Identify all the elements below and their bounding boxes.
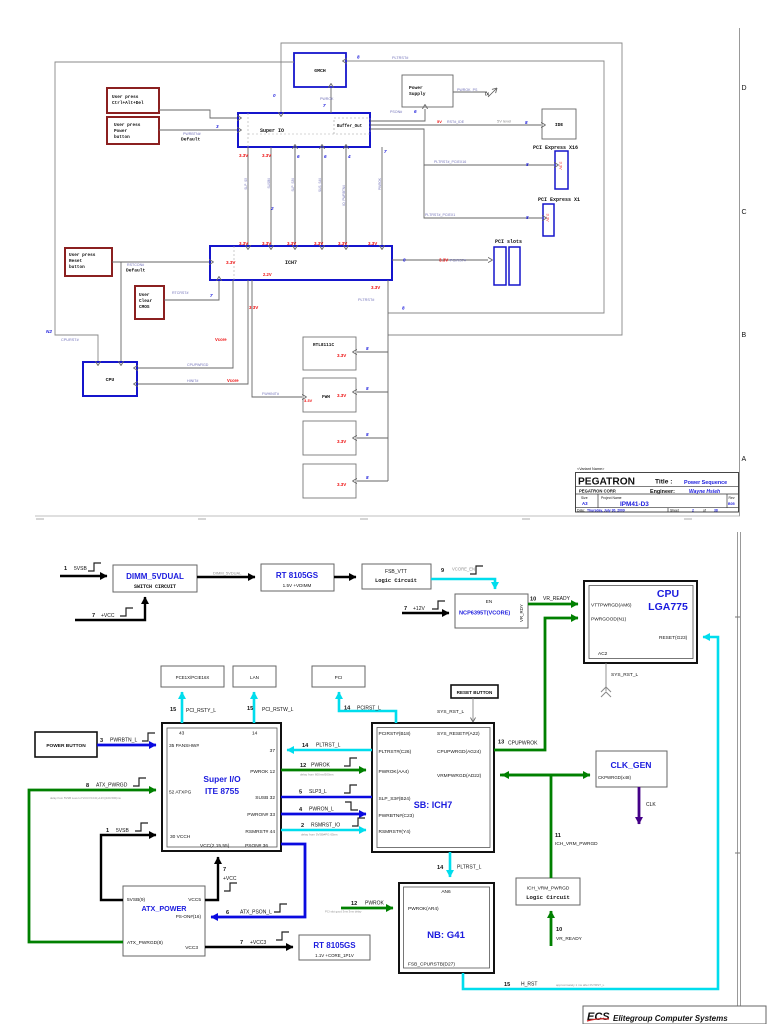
PCI slots (494, 239, 522, 285)
svg-text:5V level: 5V level (497, 119, 511, 124)
svg-text:PCE1X/PCIE16X: PCE1X/PCIE16X (176, 675, 210, 680)
GMCH (294, 53, 346, 87)
bus Super IO to ICH7 wire 1 (239, 147, 248, 246)
sheet1 bottom border (35, 516, 740, 519)
svg-text:3.3V: 3.3V (249, 305, 258, 310)
svg-text:0: 0 (273, 93, 276, 98)
User press Ctrl+Alt+Del (107, 88, 159, 113)
svg-text:VR_READY: VR_READY (556, 936, 583, 942)
svg-text:2: 2 (692, 509, 694, 513)
wire 13 CPUPWROK SB to CPU (494, 618, 578, 750)
svg-text:Thursday, July 30, 2009: Thursday, July 30, 2009 (587, 509, 625, 513)
svg-text:GMCH: GMCH (314, 68, 326, 74)
wire RSTCON# reset button to ICH7 (112, 262, 209, 274)
bus wire 5 (338, 147, 351, 246)
svg-text:PCI_RSTW_L: PCI_RSTW_L (262, 707, 294, 713)
svg-text:CPUPWRGD: CPUPWRGD (187, 363, 209, 367)
svg-text:PWRGOOD(N1): PWRGOOD(N1) (591, 617, 627, 623)
wire 14 PLTRST_L SB to Super IO (287, 743, 372, 751)
svg-text:7: 7 (92, 613, 95, 619)
svg-text:Buffer_Out: Buffer_Out (337, 124, 363, 129)
svg-text:delay from 600ms/500ms: delay from 600ms/500ms (300, 773, 334, 777)
svg-text:delay from 5VSB Level of VCC/V: delay from 5VSB Level of VCC/VCC3(+12V)(… (50, 796, 121, 800)
svg-text:3.3V: 3.3V (262, 241, 271, 246)
svg-text:ATX_PWRGD(8): ATX_PWRGD(8) (127, 940, 163, 946)
svg-text:PS-ON#(16): PS-ON#(16) (176, 914, 202, 919)
svg-text:RT 8105GS: RT 8105GS (313, 941, 356, 950)
svg-text:8: 8 (526, 215, 529, 220)
svg-text:PCI slot good 3ms 3ms delay: PCI slot good 3ms 3ms delay (325, 910, 362, 914)
svg-text:7: 7 (323, 103, 326, 108)
svg-text:PWROK: PWROK (365, 901, 385, 907)
svg-text:10: 10 (556, 927, 562, 933)
svg-text:6: 6 (324, 154, 327, 159)
svg-text:7: 7 (404, 606, 407, 612)
svg-text:VCC5: VCC5 (188, 897, 201, 903)
svg-text:AC2: AC2 (598, 651, 608, 657)
svg-text:6: 6 (226, 910, 229, 916)
svg-text:RT 8105GS: RT 8105GS (276, 571, 319, 580)
svg-text:CPURST#: CPURST# (61, 338, 80, 342)
PCE1X/PCIE16X box (161, 666, 224, 687)
wire CPUPWRGD ICH7 to CPU (138, 280, 233, 368)
svg-text:ICH_VRM_PWRGD: ICH_VRM_PWRGD (527, 886, 570, 892)
svg-text:Sheet: Sheet (670, 509, 679, 513)
svg-text:Vcore: Vcore (215, 337, 227, 342)
svg-text:approximately 1 ms after PLTRS: approximately 1 ms after PLTRST_L (556, 983, 605, 987)
ICH_VRM_PWRGD Logic Circuit (516, 878, 580, 905)
svg-text:DIMM_5VDUAL: DIMM_5VDUAL (213, 571, 242, 576)
wire PWROK Super IO to GMCH (320, 88, 334, 113)
svg-text:Vcore: Vcore (227, 378, 239, 383)
svg-text:6: 6 (414, 109, 417, 114)
wire 12 PWROK to NB (325, 901, 393, 914)
svg-text:PWRON_L: PWRON_L (309, 807, 334, 813)
svg-text:PWRBTN#: PWRBTN# (183, 132, 201, 136)
wire CPURST# GMCH to CPU (46, 62, 294, 361)
svg-text:1: 1 (106, 828, 109, 834)
svg-text:ATX_POWER: ATX_POWER (142, 904, 188, 913)
svg-text:User press: User press (114, 123, 141, 128)
wire RST#_IDE to IDE (370, 119, 541, 126)
svg-text:PEGATRON: PEGATRON (578, 477, 635, 488)
svg-text:6: 6 (297, 154, 300, 159)
svg-text:N2: N2 (46, 329, 52, 334)
svg-text:3.3V: 3.3V (337, 393, 346, 398)
svg-text:VCC3: VCC3 (185, 945, 198, 951)
svg-text:1: 1 (64, 566, 67, 572)
svg-text:button: button (114, 135, 130, 140)
wire 15 PCI_RSTY_L (170, 692, 216, 723)
svg-text:Logic Circuit: Logic Circuit (375, 578, 417, 584)
svg-text:Engineer:: Engineer: (650, 489, 675, 495)
wire PSON# to Power Supply (370, 109, 425, 121)
svg-text:CLK: CLK (646, 802, 656, 808)
svg-text:Rev: Rev (729, 496, 735, 500)
svg-text:FSB_CPURSTB(D27): FSB_CPURSTB(D27) (408, 962, 455, 968)
wire ctrl-alt-del to Super IO (159, 110, 237, 118)
svg-text:VCORE_EN: VCORE_EN (452, 567, 475, 572)
wire 10 VR_READY NCP to CPU (528, 596, 578, 604)
svg-text:5VSB: 5VSB (74, 566, 87, 572)
svg-text:RSTCON#: RSTCON# (127, 263, 144, 267)
wire ICH7 to PCI slots (392, 258, 488, 263)
svg-text:FWH: FWH (322, 395, 330, 400)
svg-text:8: 8 (402, 306, 405, 311)
svg-text:PCI Express X16: PCI Express X16 (533, 145, 578, 151)
SB: ICH7 (372, 723, 494, 852)
svg-text:PWROK: PWROK (320, 97, 334, 101)
svg-text:B05: B05 (728, 502, 735, 506)
svg-text:SUSB#: SUSB# (267, 178, 271, 189)
svg-text:CPU: CPU (657, 588, 679, 600)
wire SYS_RST_L below CPU (601, 663, 639, 697)
wire 7 +12V to NCP (402, 601, 449, 613)
Power Supply (402, 75, 453, 107)
svg-text:3.3V: 3.3V (304, 398, 313, 403)
CPU LGA775 (584, 581, 697, 663)
svg-text:CLK_GEN: CLK_GEN (610, 760, 651, 770)
svg-text:RESET(G23): RESET(G23) (659, 635, 688, 641)
svg-text:of: of (703, 509, 706, 513)
svg-text:DIMM_5VDUAL: DIMM_5VDUAL (126, 572, 184, 581)
svg-text:15: 15 (170, 707, 176, 713)
RTL8111C (303, 337, 356, 370)
wire 15 PCI_RSTW_L (247, 692, 294, 723)
svg-text:SLP_S3#(B24): SLP_S3#(B24) (379, 796, 411, 802)
svg-text:IO_PWRBTN#: IO_PWRBTN# (342, 185, 346, 206)
svg-text:3.3V: 3.3V (546, 214, 551, 223)
svg-text:A: A (742, 456, 747, 463)
wire PWRBTN# to Super IO (159, 124, 237, 143)
svg-text:SLP_S3#: SLP_S3# (291, 178, 295, 192)
svg-text:VCC(2,15,55): VCC(2,15,55) (200, 843, 230, 849)
svg-text:4: 4 (299, 807, 303, 813)
svg-text:43: 43 (179, 731, 185, 737)
svg-text:PWROK 12: PWROK 12 (250, 769, 275, 775)
svg-text:2.2V: 2.2V (263, 272, 272, 277)
wire 8 ATX_PWRGD green (29, 778, 156, 942)
NB: G41 (399, 883, 494, 973)
svg-text:8: 8 (366, 386, 369, 391)
svg-text:SLP_S5: SLP_S5 (244, 178, 248, 190)
CLK_GEN (596, 751, 667, 787)
svg-text:Power Sequence: Power Sequence (684, 480, 727, 486)
svg-text:8: 8 (525, 120, 528, 125)
svg-text:<Variant Name>: <Variant Name> (577, 467, 605, 471)
svg-text:+VCC3: +VCC3 (250, 940, 266, 946)
RESET BUTTON (451, 685, 498, 698)
svg-text:5VSB: 5VSB (116, 828, 129, 834)
IDE (542, 109, 576, 139)
svg-text:SYS_RST_L: SYS_RST_L (611, 672, 639, 678)
svg-text:3: 3 (216, 124, 219, 129)
RT 8105GS top (261, 564, 334, 591)
svg-text:VRMPWRGD(AD22): VRMPWRGD(AD22) (437, 773, 482, 779)
svg-text:5V: 5V (437, 119, 442, 124)
svg-text:RTCRST#: RTCRST# (172, 291, 189, 295)
svg-text:VR_RDY: VR_RDY (519, 604, 524, 622)
svg-text:37: 37 (270, 748, 276, 754)
svg-text:14: 14 (437, 865, 444, 871)
svg-text:Elitegroup Computer Systems: Elitegroup Computer Systems (613, 1014, 728, 1023)
wire SYS_RST_L reset button to SB (437, 698, 473, 722)
svg-text:B: B (742, 332, 747, 339)
wire PLTRST# to PCIE X16 (370, 129, 554, 167)
wire 5 SLP3_L (281, 785, 372, 797)
svg-text:PEGATRON CORP.: PEGATRON CORP. (579, 489, 616, 494)
svg-text:button: button (69, 265, 85, 270)
svg-text:CMOS: CMOS (139, 305, 150, 310)
ATX_POWER (123, 886, 205, 956)
svg-text:3.3V: 3.3V (439, 258, 448, 263)
svg-text:Supply: Supply (409, 91, 426, 97)
svg-text:RSMRST# 44: RSMRST# 44 (245, 829, 275, 835)
svg-text:H_RST: H_RST (521, 982, 537, 988)
svg-text:ICH_VRM_PWRGD: ICH_VRM_PWRGD (555, 841, 598, 847)
svg-text:Title :: Title : (655, 479, 672, 486)
svg-text:Project Name: Project Name (601, 496, 622, 500)
ECS logo box (583, 1006, 766, 1024)
svg-text:7: 7 (240, 940, 243, 946)
trunk branch to box 3 (337, 432, 388, 444)
wire 4 PWRON_L (281, 802, 366, 814)
svg-text:15: 15 (247, 706, 253, 712)
trunk branch to RTL8111C (337, 346, 388, 358)
svg-text:delay from 5VSB#PG 65ms: delay from 5VSB#PG 65ms (301, 833, 338, 837)
svg-text:PLTRST_L: PLTRST_L (316, 743, 341, 749)
wire 3 PWRBTN_L (97, 733, 156, 745)
svg-text:RESET BUTTON: RESET BUTTON (457, 690, 493, 695)
svg-text:SYS_RESET#(A22): SYS_RESET#(A22) (437, 731, 480, 737)
svg-text:VTTPWRGD(AM6): VTTPWRGD(AM6) (591, 603, 632, 609)
svg-text:PCI: PCI (335, 675, 343, 680)
svg-text:Super IO: Super IO (260, 128, 284, 134)
wire 14 PCIRST_L SB to PCI (339, 692, 396, 723)
svg-text:Logic Circuit: Logic Circuit (526, 894, 570, 901)
svg-text:3.3V: 3.3V (368, 241, 377, 246)
svg-text:3.3V: 3.3V (287, 241, 296, 246)
svg-text:PSON# 36: PSON# 36 (245, 843, 268, 849)
bus wire 3 (287, 147, 300, 246)
svg-text:IDE: IDE (555, 122, 564, 128)
svg-text:30 VCCH: 30 VCCH (170, 834, 191, 840)
svg-text:SWITCH CIRCUIT: SWITCH CIRCUIT (134, 584, 176, 590)
User press Reset button (65, 248, 112, 276)
svg-text:PCI_RSTY_L: PCI_RSTY_L (186, 708, 216, 714)
svg-text:3.3V: 3.3V (239, 241, 248, 246)
svg-text:7: 7 (223, 867, 226, 873)
POWER BUTTON (35, 732, 97, 757)
svg-text:PCIRST_L: PCIRST_L (357, 706, 381, 712)
svg-text:SB: ICH7: SB: ICH7 (414, 800, 453, 810)
svg-text:12: 12 (300, 763, 306, 769)
svg-text:VR_READY: VR_READY (543, 596, 571, 602)
svg-text:PCI slots: PCI slots (495, 239, 522, 245)
svg-text:ECS: ECS (587, 1011, 610, 1023)
svg-text:PWROK: PWROK (378, 177, 382, 190)
wire 12 PWROK SuperIO to SB (281, 758, 366, 777)
svg-text:3.3V: 3.3V (337, 482, 346, 487)
svg-text:Super I/O: Super I/O (203, 774, 241, 784)
title block (576, 467, 739, 513)
svg-text:Default: Default (181, 137, 201, 143)
svg-text:5VSB(9): 5VSB(9) (127, 897, 146, 903)
NCP6395T(VCORE) (455, 594, 528, 628)
svg-text:1.5V +VDIMM: 1.5V +VDIMM (283, 583, 312, 588)
wire 14 PLTRST_L SB to NB (437, 852, 482, 877)
svg-text:RSMRST_IO: RSMRST_IO (311, 823, 340, 829)
svg-text:3.3V: 3.3V (338, 241, 347, 246)
svg-text:Ctrl+Alt+Del: Ctrl+Alt+Del (112, 101, 144, 106)
svg-text:HINIT#: HINIT# (187, 379, 198, 383)
svg-text:PLTRST#_PCIEX16: PLTRST#_PCIEX16 (434, 160, 466, 164)
svg-text:FSB_VTT: FSB_VTT (385, 569, 407, 575)
svg-text:PWROK_PS: PWROK_PS (457, 88, 478, 92)
wire FWHINIT# ICH7 to FWH (252, 280, 313, 403)
FSB_VTT Logic Circuit (362, 564, 431, 589)
svg-text:ITE 8755: ITE 8755 (205, 786, 239, 796)
svg-text:POWER BUTTON: POWER BUTTON (46, 743, 86, 749)
wire CLK purple (639, 787, 656, 824)
wire DIMM to RT8105GS (197, 571, 255, 578)
svg-text:11: 11 (555, 833, 561, 839)
wire PWROK_PS from Power Supply (453, 88, 497, 97)
svg-text:35 PANSHW#: 35 PANSHW# (169, 743, 199, 749)
FWH (303, 378, 356, 412)
svg-text:ATX_PSON_L: ATX_PSON_L (240, 910, 272, 916)
svg-text:3.3V: 3.3V (262, 153, 271, 158)
svg-text:PCI Express X1: PCI Express X1 (538, 197, 580, 203)
svg-text:3.3V: 3.3V (239, 153, 248, 158)
svg-text:PWROK(AA4): PWROK(AA4) (379, 769, 410, 775)
svg-text:12: 12 (351, 901, 357, 907)
svg-text:PCIRST#(B18): PCIRST#(B18) (379, 731, 411, 737)
svg-text:CPUPWROK: CPUPWROK (508, 741, 538, 747)
svg-text:LGA775: LGA775 (648, 601, 688, 613)
sheet2 right border (735, 532, 741, 1024)
svg-text:14: 14 (302, 743, 309, 749)
User Clear CMOS (135, 286, 164, 319)
svg-text:PLTRST#_PCIEX1: PLTRST#_PCIEX1 (425, 213, 455, 217)
wire 1 5VSB to Super IO (101, 823, 156, 900)
svg-text:Size: Size (581, 496, 588, 500)
svg-text:15: 15 (504, 982, 510, 988)
svg-text:4: 4 (347, 154, 351, 159)
wire inner loop PLTRST# to GMCH (347, 55, 604, 314)
svg-text:8: 8 (86, 783, 89, 789)
svg-text:13: 13 (498, 740, 504, 746)
svg-text:+VCC: +VCC (223, 876, 237, 882)
trunk branch to FWH (337, 386, 388, 398)
svg-text:+12V: +12V (413, 606, 425, 612)
svg-text:8: 8 (526, 162, 529, 167)
svg-text:RSMRST#(Y4): RSMRST#(Y4) (379, 829, 411, 835)
svg-text:52 ATXPG: 52 ATXPG (169, 790, 192, 796)
sheet1 right border (740, 28, 747, 516)
svg-text:8: 8 (366, 346, 369, 351)
svg-text:3: 3 (100, 738, 103, 744)
svg-text:SUS_S4#: SUS_S4# (318, 178, 322, 192)
svg-text:LAN: LAN (250, 675, 259, 680)
PCI Express X1 slot (538, 197, 580, 236)
svg-text:8: 8 (366, 432, 369, 437)
trunk below ICH7 (358, 280, 388, 481)
svg-text:User press: User press (112, 95, 139, 100)
svg-text:PWROK(AR4): PWROK(AR4) (408, 906, 439, 912)
svg-text:EN: EN (486, 599, 492, 604)
svg-text:8: 8 (403, 258, 406, 263)
svg-text:7: 7 (384, 149, 387, 154)
svg-text:RTL8111C: RTL8111C (313, 343, 334, 348)
svg-text:3.3V: 3.3V (314, 241, 323, 246)
svg-text:PWRON# 33: PWRON# 33 (247, 812, 275, 818)
svg-text:PLTRST_L: PLTRST_L (457, 865, 482, 871)
wire reset to CPU (120, 262, 122, 361)
wire RT8105GS to FSB_VTT (334, 576, 356, 578)
svg-text:CPU: CPU (106, 377, 115, 383)
svg-text:ICH7: ICH7 (285, 260, 297, 266)
wire 2 RSMRST_IO (281, 818, 366, 837)
svg-text:Clear: Clear (139, 299, 153, 304)
DIMM_5VDUAL (113, 565, 197, 592)
svg-text:1.1V +CORE_1P1V: 1.1V +CORE_1P1V (315, 953, 354, 958)
wire HINIT# ICH7 to CPU (138, 280, 258, 384)
svg-text:PWRBTN_L: PWRBTN_L (110, 738, 137, 744)
svg-text:SLP3_L: SLP3_L (309, 789, 327, 795)
svg-text:3.3V: 3.3V (337, 439, 346, 444)
svg-text:14: 14 (344, 706, 351, 712)
svg-text:RST#_IDE: RST#_IDE (447, 120, 465, 124)
wire 6 ATX_PSON_L blue (211, 844, 305, 917)
Super I/O ITE 8755 (162, 723, 281, 851)
svg-text:8: 8 (357, 55, 360, 60)
wire 15 H_RST NB to CPU reset loop (463, 637, 718, 989)
svg-text:PWRBTN#(C23): PWRBTN#(C23) (379, 813, 415, 819)
svg-text:FWHINIT#: FWHINIT# (262, 392, 279, 396)
bus wire 4 (314, 147, 327, 246)
svg-text:PSON#: PSON# (390, 110, 402, 114)
svg-text:Date:: Date: (577, 509, 585, 513)
svg-text:2: 2 (270, 206, 274, 211)
unnamed box 4 (303, 464, 356, 498)
wire 7 +VCC3 to RT8105GS (205, 932, 293, 947)
svg-text:Power: Power (409, 85, 423, 91)
svg-text:3.3V: 3.3V (371, 285, 380, 290)
bus wire 6 (368, 147, 387, 246)
unnamed box 3 (303, 421, 356, 455)
CPU (83, 362, 137, 396)
svg-text:SYS_RST_L: SYS_RST_L (437, 709, 465, 715)
wire RTCRST# cmos to ICH7 (164, 281, 219, 300)
svg-text:Power: Power (114, 129, 128, 134)
svg-text:/X: /X (485, 92, 489, 97)
svg-text:+VCC: +VCC (101, 613, 115, 619)
svg-text:Reset: Reset (69, 259, 83, 264)
svg-text:A3: A3 (582, 501, 588, 506)
svg-text:AN6: AN6 (441, 889, 451, 895)
wire 7 +VCC to Super IO bottom (205, 857, 237, 900)
svg-text:CPUPWRGD(AG24): CPUPWRGD(AG24) (437, 749, 481, 755)
ICH7 (210, 246, 392, 280)
svg-text:3.3V: 3.3V (559, 162, 564, 171)
svg-text:D: D (742, 85, 747, 92)
svg-text:14: 14 (252, 731, 258, 737)
PCI box (312, 666, 365, 687)
svg-text:PLTRST#(C26): PLTRST#(C26) (379, 749, 412, 755)
svg-text:NCP6395T(VCORE): NCP6395T(VCORE) (459, 611, 510, 617)
svg-text:8: 8 (366, 475, 369, 480)
